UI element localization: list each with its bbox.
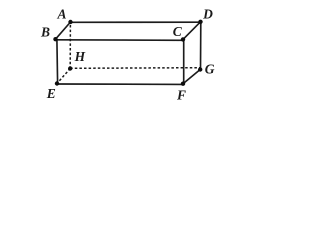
node E vertex dot: [55, 81, 59, 85]
node C vertex dot: [181, 37, 185, 41]
wire hidden edge HG (dashed horizontal): [70, 67, 200, 70]
wire hidden edge AH (dashed vertical): [69, 25, 71, 69]
node D vertex dot: [198, 20, 202, 24]
wire edge AD (top back): [71, 21, 201, 23]
wire edge BE (left vertical): [56, 39, 59, 83]
svg-text:D: D: [202, 7, 213, 22]
wire edge CF (right front vertical): [183, 39, 185, 83]
svg-text:H: H: [74, 49, 86, 64]
svg-text:G: G: [205, 62, 215, 77]
wire edge DG (right back vertical): [200, 22, 202, 70]
svg-text:B: B: [40, 25, 50, 40]
wire edge AB (top left slant): [56, 22, 71, 39]
wire hidden edge HE (dashed slant): [57, 69, 70, 84]
svg-text:A: A: [56, 6, 66, 21]
node H vertex dot: [68, 66, 72, 70]
svg-text:C: C: [173, 24, 183, 39]
node F vertex dot: [181, 82, 185, 86]
wire edge EF (bottom front): [57, 83, 183, 85]
wire edge DC (top right slant): [183, 22, 201, 40]
wire edge FG (bottom right slant): [183, 70, 200, 84]
svg-text:E: E: [46, 86, 56, 101]
wire edge BC (top front): [56, 39, 184, 42]
svg-text:F: F: [176, 88, 186, 103]
node B vertex dot: [53, 37, 57, 41]
node A vertex dot: [68, 20, 72, 24]
node G vertex dot: [198, 67, 202, 71]
